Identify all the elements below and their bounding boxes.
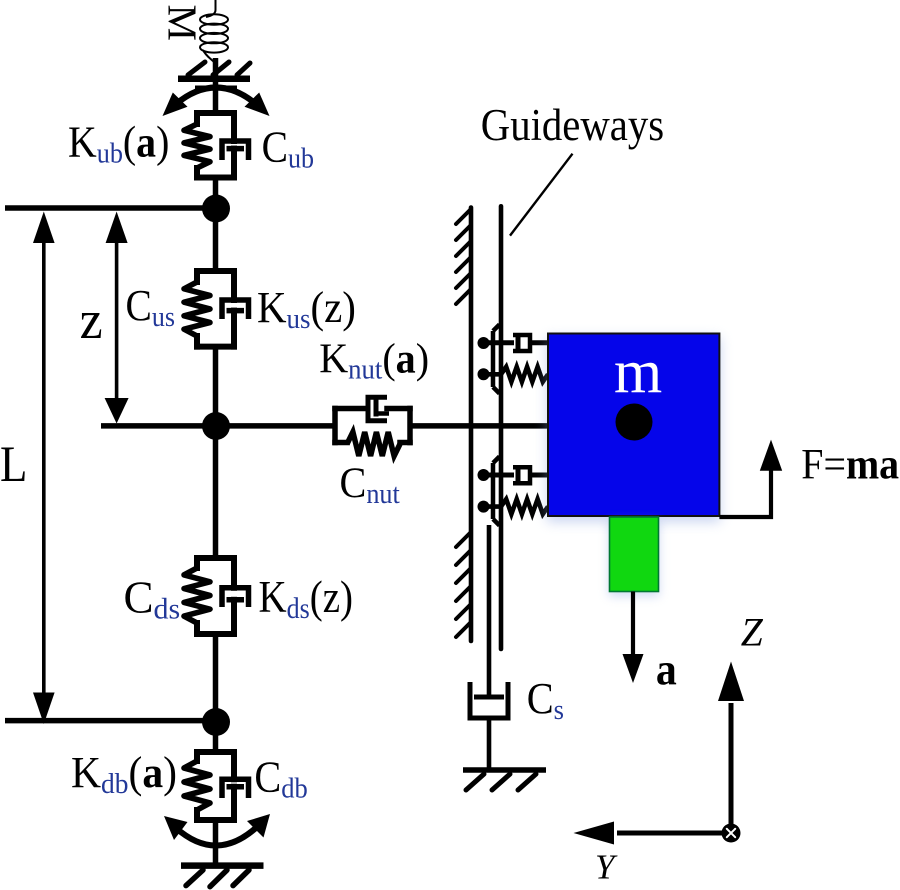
- upper bearing support hatches: [188, 62, 250, 75]
- lower carriage spring: [501, 499, 548, 514]
- axis origin symbol X into page: [722, 824, 741, 843]
- label Kus(z): [257, 284, 356, 336]
- guideway wall hatches top: [456, 210, 470, 304]
- Cs ground bar: [463, 767, 546, 773]
- label Cus: [126, 282, 175, 332]
- label Knut(a): [319, 335, 429, 385]
- label Guideways: [481, 100, 664, 151]
- svg-text:Z: Z: [741, 610, 764, 654]
- label Y: [595, 848, 618, 887]
- acceleration arrowhead: [623, 654, 644, 683]
- svg-text:Kdb(a): Kdb(a): [71, 749, 177, 800]
- label Z: [741, 610, 764, 654]
- mass block m: [548, 334, 719, 517]
- screw box Cus Kus outline: [197, 271, 234, 347]
- svg-text:F=ma: F=ma: [801, 440, 899, 488]
- upper bearing second bar: [195, 86, 237, 91]
- label Kub(a): [68, 119, 169, 169]
- node A: [202, 195, 230, 223]
- damper Cub cup: [222, 141, 249, 160]
- svg-text:Cs: Cs: [527, 674, 564, 726]
- svg-text:m: m: [614, 338, 662, 406]
- lower damper rod right: [530, 473, 549, 478]
- upper damper rod left: [484, 340, 515, 345]
- svg-text:Cub: Cub: [262, 124, 314, 174]
- lower rotation arrowhead left: [164, 816, 188, 840]
- bearing box Kub Cub outline: [197, 113, 234, 178]
- axis Y arrowhead: [574, 822, 615, 845]
- wire box Kdb to lower support: [213, 820, 219, 866]
- upper rotation arrowhead left: [163, 93, 188, 117]
- label Kdb(a): [71, 749, 177, 800]
- svg-text:Guideways: Guideways: [481, 100, 664, 151]
- label a: [656, 645, 677, 695]
- motor label M (rotated): [160, 5, 206, 41]
- label F=ma: [801, 440, 899, 488]
- upper damper rod right: [530, 340, 549, 345]
- wire box Cus to node B: [213, 347, 219, 426]
- dimension L line: [42, 240, 46, 696]
- label L: [0, 436, 27, 492]
- guideways leader line: [510, 154, 573, 236]
- label z: [80, 291, 103, 350]
- shaft wire top (coil to bearing to box Kub): [213, 58, 219, 114]
- lower rotation arc: [176, 826, 258, 846]
- wire node A to box Cus: [213, 209, 219, 273]
- dimension z line: [115, 240, 119, 400]
- guideway wall hatches bottom: [456, 533, 470, 637]
- carriage bracket upper: [493, 325, 500, 394]
- dimension z arrowhead bottom: [105, 398, 129, 424]
- svg-text:M: M: [160, 5, 206, 41]
- svg-text:z: z: [80, 291, 103, 350]
- svg-text:Y: Y: [595, 848, 618, 887]
- svg-text:L: L: [0, 436, 27, 492]
- damper Kds piston: [227, 597, 245, 603]
- damper Cs piston plate: [474, 695, 504, 700]
- label Cdb: [254, 753, 307, 805]
- node A horizontal line: [5, 205, 216, 211]
- wire Knut box to mass: [410, 423, 548, 429]
- table block (green): [610, 517, 659, 592]
- node B horizontal line left: [101, 423, 216, 429]
- wire node B to box Cds: [213, 426, 219, 559]
- damper Cdb piston: [227, 784, 245, 790]
- damper Kus piston: [227, 308, 245, 314]
- mass center dot: [616, 404, 653, 441]
- lower support ground bar: [181, 862, 264, 869]
- svg-text:Cnut: Cnut: [340, 460, 401, 509]
- damper Cs rod bottom: [487, 718, 492, 768]
- upper bearing support bar: [178, 75, 250, 82]
- label Cnut: [340, 460, 401, 509]
- svg-text:Kus(z): Kus(z): [257, 284, 356, 336]
- damper Knut piston stub: [376, 411, 389, 416]
- wire box Cds to node C: [213, 634, 219, 722]
- guideway wall line: [469, 208, 474, 642]
- wire node C to box Kdb: [213, 722, 219, 753]
- damper Cub piston: [227, 146, 245, 152]
- force line from mass corner: [719, 470, 771, 517]
- lower damper rod left: [484, 473, 515, 478]
- node C horizontal line: [5, 718, 216, 724]
- upper damper cup: [513, 335, 530, 351]
- wire box Kub to node A: [213, 178, 219, 209]
- svg-text:Cus: Cus: [126, 282, 175, 332]
- bearing box Kdb Cdb outline: [197, 752, 234, 820]
- pivot dot upper spring: [478, 368, 490, 380]
- svg-text:Cdb: Cdb: [254, 753, 307, 805]
- lower spring rod: [484, 504, 503, 509]
- spring Cus: [184, 282, 210, 336]
- upper spring rod: [484, 372, 503, 377]
- lower damper cup: [513, 467, 530, 483]
- spring Kub: [184, 124, 210, 168]
- spring Cnut: [347, 432, 400, 456]
- pivot dot lower spring: [478, 501, 490, 513]
- force arrowhead F: [760, 440, 782, 471]
- node B horizontal wire to Knut box: [216, 423, 335, 429]
- dimension L arrowhead top: [33, 212, 55, 244]
- node C: [202, 708, 230, 736]
- upper carriage spring: [501, 367, 548, 382]
- damper Kus cup: [222, 300, 249, 319]
- lower rotation arrowhead right: [247, 814, 270, 838]
- pivot dot lower damper: [478, 469, 490, 481]
- label Cds: [124, 573, 181, 626]
- upper rotation arc: [176, 88, 256, 105]
- lower support ground hatches: [186, 870, 249, 887]
- svg-text:a: a: [656, 645, 677, 695]
- svg-text:Cds: Cds: [124, 573, 181, 626]
- lower damper piston: [516, 469, 521, 482]
- axis Y line: [617, 831, 731, 836]
- screw box Cds Kds outline: [197, 558, 234, 634]
- label m: [614, 338, 662, 406]
- spring Cds: [184, 568, 210, 623]
- svg-text:Kds(z): Kds(z): [259, 572, 353, 625]
- Cs ground hatches: [466, 774, 536, 790]
- label Cub: [262, 124, 314, 174]
- guideway rail line: [499, 206, 504, 649]
- damper Knut piston: [374, 400, 379, 417]
- dimension z arrowhead top: [106, 212, 128, 244]
- svg-text:Kub(a): Kub(a): [68, 119, 169, 169]
- nut box Knut Cnut outline: [335, 409, 410, 443]
- svg-text:Knut(a): Knut(a): [319, 335, 429, 385]
- motor coil winding: [200, 0, 228, 62]
- node B: [202, 412, 230, 440]
- damper Cdb cup: [222, 779, 249, 798]
- axis Z line: [729, 703, 734, 833]
- pivot dot upper damper: [478, 337, 490, 349]
- axis Z arrowhead: [718, 662, 744, 702]
- damper Cs cup: [470, 682, 508, 718]
- damper Cs rod top: [487, 525, 492, 695]
- damper Knut cup: [368, 397, 387, 420]
- label Kds(z): [259, 572, 353, 625]
- dimension L arrowhead bottom: [33, 693, 55, 725]
- upper rotation arrowhead right: [245, 93, 270, 117]
- upper damper piston: [516, 337, 521, 350]
- label Cs: [527, 674, 564, 726]
- spring Kdb: [184, 761, 210, 810]
- carriage bracket lower: [493, 457, 500, 526]
- acceleration arrow line: [631, 592, 635, 657]
- damper Kds cup: [222, 588, 249, 607]
